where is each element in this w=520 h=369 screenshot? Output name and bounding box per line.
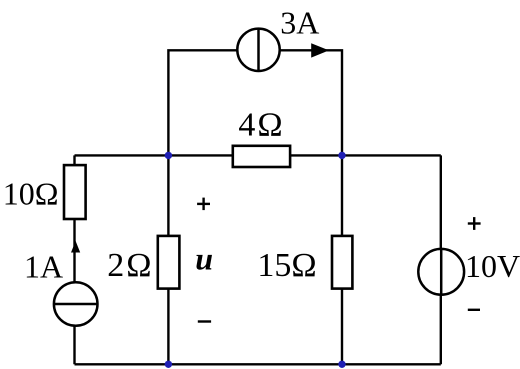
svg-text:1A: 1A [24,248,63,284]
label plus of u [197,198,210,211]
wire 15ohm branch (node B down to node D) [341,155,343,364]
node D junction dot [338,361,345,368]
node C junction dot [165,361,172,368]
wire bottom rail [75,363,441,365]
svg-text:4Ω: 4Ω [238,106,284,143]
svg-text:u: u [195,240,213,276]
resistor 4ohm [233,146,290,167]
svg-text:10Ω: 10Ω [3,175,59,211]
node A junction dot [165,152,172,159]
wire top-right segment (3A source right then down to node B) [258,50,342,155]
label plus of 10V [468,217,481,230]
wire top-left segment (node A up and right to 3A source) [168,50,258,155]
resistor 2ohm [158,236,180,289]
wire left branch (down through 10ohm and 1A source) [73,155,75,364]
resistor 10ohm [64,165,86,219]
label minus of 10V [468,309,480,311]
voltage source 10V [418,249,464,295]
resistor 15ohm [332,236,352,289]
wire 2ohm branch (node A down to node C) [167,155,169,364]
svg-text:3A: 3A [280,5,319,41]
node B junction dot [338,152,345,159]
svg-text:10V: 10V [465,248,520,284]
wire right branch (through 10V source) [440,155,442,364]
arrow current direction 3A [311,43,329,57]
arrow current direction 1A [71,241,80,253]
wire middle rail (left corner through node A, 4ohm, node B to right corner) [75,154,441,156]
svg-text:2Ω: 2Ω [107,247,153,284]
label minus of u [198,320,211,322]
current source 1A [54,282,98,326]
svg-text:15Ω: 15Ω [257,247,316,284]
current source 3A [237,29,279,71]
